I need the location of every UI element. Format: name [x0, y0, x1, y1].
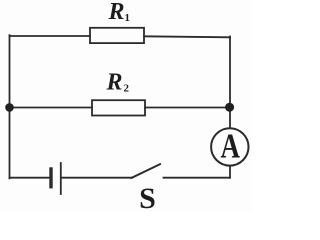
- wire right vertical lower: [229, 166, 231, 178]
- battery cell: [51, 163, 61, 194]
- wire left vertical: [9, 35, 11, 178]
- node left junction: [5, 103, 14, 112]
- wire bottom-middle horizontal: [62, 177, 132, 179]
- label R1: [108, 0, 131, 25]
- wire right vertical upper: [229, 37, 231, 129]
- svg-text:R: R: [108, 0, 125, 25]
- svg-text:A: A: [220, 126, 240, 165]
- wire middle-right horizontal: [145, 107, 230, 109]
- resistor R1: [90, 28, 144, 43]
- svg-text:2: 2: [124, 83, 130, 95]
- wire top-right horizontal: [144, 36, 230, 37]
- wire bottom-left horizontal: [10, 177, 51, 179]
- wire bottom-right horizontal: [164, 177, 231, 179]
- svg-text:1: 1: [125, 12, 131, 24]
- svg-text:S: S: [139, 182, 156, 212]
- node right junction: [225, 103, 234, 112]
- switch S blade: [132, 164, 161, 178]
- svg-text:R: R: [106, 69, 123, 95]
- label R2: [106, 69, 130, 95]
- wire middle-left horizontal: [10, 107, 93, 109]
- wire top-left horizontal: [10, 35, 91, 37]
- resistor R2: [92, 100, 145, 115]
- ammeter A circle: [211, 128, 248, 165]
